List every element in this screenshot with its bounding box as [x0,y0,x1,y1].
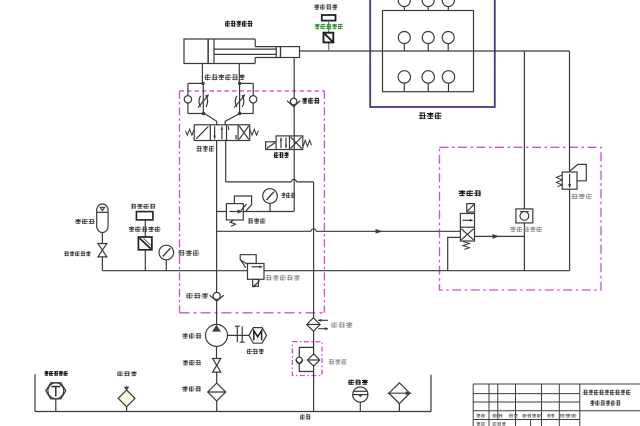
dual throttle-check assembly 1 [184,83,217,124]
pressure transducer left [138,237,152,271]
wire: pump suction below check [216,299,218,324]
proportional line wire (y231) [217,230,461,232]
test bench inner rect [383,11,474,92]
directional valve 2 (solenoid 2/2) [266,136,312,150]
wire valve3 to pilot check [475,235,525,237]
relief valve right [556,51,586,271]
filter bypass box (magenta dashed) [292,342,322,376]
enclosure box left (magenta dashed) [180,91,325,313]
pressure gauge mid [263,189,278,212]
secondary instrument top [322,15,336,21]
wire valve3 left loop [448,237,461,270]
right box: directional valve 3 [460,204,474,250]
wire: cylinder left stem [201,64,203,84]
test bench outer box (blue) [370,0,495,107]
test ports row3 [398,71,455,92]
main directional valve 4/3 [186,125,259,141]
crossover bump 2 [311,229,316,231]
wire: B return line [225,141,227,182]
proportional relief valve [240,255,264,287]
air filter [118,386,135,411]
pulse generator cylinder [184,39,300,64]
dual throttle-check assembly 2 [225,83,257,124]
cooler [307,318,328,331]
stop valve [213,346,221,383]
crossover bump [291,179,296,181]
test ports row1 (top, cut off) [398,0,454,11]
wire cooler to filter [313,331,315,354]
wire through valve2 [293,105,295,150]
green link wire [328,21,330,51]
check valve top right [287,98,300,106]
electric motor [249,328,267,344]
reducing valve branch wire [217,211,294,213]
junction dot assembly2 [238,112,241,115]
check valve in box [210,292,224,301]
pressure gauge left [159,245,174,271]
pilot operated check valve [516,51,533,271]
wire: cylinder output line to test area [300,50,570,52]
junction dots top brackets [201,82,204,85]
directional valve 2 drop wire [293,150,295,212]
junction dot assembly1 [202,112,205,115]
pressure bus wire (y270.7) [102,270,569,272]
piston pump [206,324,228,346]
wire: cylinder mid stem [238,64,240,84]
reducing valve [226,196,251,226]
right drop pipe [430,375,432,412]
level gauge [353,387,368,412]
labels (simulated hanzi strokes) [225,21,252,27]
breather [388,383,412,412]
flow arrow on line [376,229,383,234]
temperature sensor [46,383,66,412]
accumulator [97,204,108,244]
filter (pump line) [208,383,226,412]
wire: P line main vertical [216,141,218,293]
test ports row2 [398,32,454,52]
secondary instrument left [136,212,153,220]
enclosure box right (magenta dash-dot) [440,147,602,290]
title block [473,384,640,426]
tank bus [35,411,431,413]
wire: return drop to cooler [313,182,315,318]
wire: cylinder rod-end stem [293,58,295,99]
coupling [228,326,249,342]
pressure transducer top (green) [324,33,334,43]
bypass filter assembly [296,347,320,411]
left drop pipe [34,374,36,411]
HP stop valve [98,244,107,271]
